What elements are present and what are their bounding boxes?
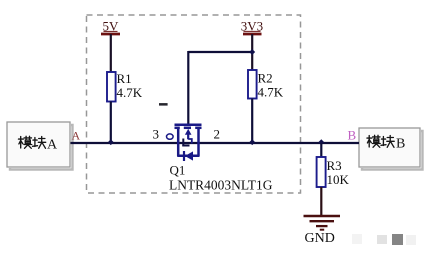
svg-text:10K: 10K [327,172,350,187]
svg-text:2: 2 [214,127,221,142]
svg-text:R3: R3 [327,158,342,173]
svg-text:A: A [72,129,81,143]
svg-text:4.7K: 4.7K [117,85,143,100]
svg-text:B: B [348,128,357,143]
svg-text:LNTR4003NLT1G: LNTR4003NLT1G [169,178,273,193]
svg-text:R1: R1 [117,71,132,86]
svg-text:A: A [47,138,58,153]
svg-text:3: 3 [153,127,160,142]
svg-text:4.7K: 4.7K [258,85,284,100]
svg-text:GND: GND [305,231,335,246]
svg-text:R2: R2 [258,71,273,86]
svg-text:B: B [396,137,405,152]
svg-text:Q1: Q1 [170,163,186,178]
